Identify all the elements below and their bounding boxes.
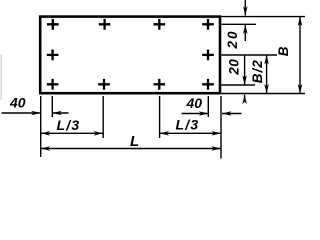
cross marker row1 col2 xyxy=(99,19,111,30)
dimension B/2: down arrow xyxy=(264,84,269,94)
dimension 40 left: tail right of col1 xyxy=(52,112,68,114)
dimension 40 left: leader line xyxy=(2,112,41,114)
svg-text:40: 40 xyxy=(9,95,26,111)
tick line row1 right xyxy=(222,23,257,25)
extension line col2 xyxy=(102,96,104,138)
top edge extension to the right xyxy=(222,16,306,18)
cross marker row3 col1 xyxy=(47,79,59,90)
scan edge artifact xyxy=(1,54,2,100)
dimension 20 top: upper line xyxy=(244,0,246,16)
dimension L: left arrow xyxy=(41,146,51,151)
dimension 40 right: leader line xyxy=(182,113,208,115)
cross marker row3 col2 xyxy=(98,79,110,90)
dimension 20 bottom: upper tail from tick2 xyxy=(244,55,246,85)
cross marker row1 col1 xyxy=(47,19,59,30)
dimension 20 bottom: down arrow at tick3 xyxy=(242,75,247,85)
dimension 20 top: down arrow xyxy=(243,6,248,16)
svg-text:L: L xyxy=(130,133,139,150)
dimension B: down arrow xyxy=(298,84,303,94)
svg-text:L/3: L/3 xyxy=(57,117,81,133)
dimension 40 left: left-pointing arrow xyxy=(52,111,62,116)
dimension B: up arrow xyxy=(298,17,303,27)
cross marker row2 col4 xyxy=(202,50,214,61)
dimension B/2: up arrow xyxy=(264,55,269,65)
dimension L/3 right: right arrow xyxy=(212,131,222,136)
dimension 40 right: right-pointing arrow xyxy=(199,111,209,116)
dimension 40 right: tail right of edge xyxy=(222,113,242,115)
cross marker row3 col4 xyxy=(202,79,214,90)
tick line row3 right xyxy=(222,84,256,86)
extension line col1 xyxy=(51,96,53,117)
dimension 20 top: up arrow xyxy=(243,25,248,35)
dimension L/3 right: left arrow xyxy=(160,131,170,136)
cross marker row1 col3 xyxy=(154,19,166,30)
dimension 40 right: left-pointing arrow xyxy=(222,111,232,116)
dimension L/3 left: left arrow xyxy=(41,131,51,136)
tick line row2 right xyxy=(222,54,278,56)
dimension L/3 left: line xyxy=(41,132,103,134)
dimension 20 bottom: up arrow at bottom edge xyxy=(242,95,247,105)
svg-text:20: 20 xyxy=(226,59,241,76)
svg-text:L/3: L/3 xyxy=(176,117,200,133)
cross marker row1 col4 xyxy=(202,19,214,30)
cross marker row2 col1 xyxy=(47,50,59,61)
dimension 20 top: lower tail xyxy=(244,25,246,42)
extension line col3 xyxy=(159,96,161,138)
svg-text:B: B xyxy=(276,46,291,56)
dimension L: right arrow xyxy=(212,146,222,151)
dimension B: line xyxy=(299,17,301,94)
dimension 20 bottom: lower tail below plate xyxy=(244,95,246,102)
dimension L/3 left: right arrow xyxy=(94,131,104,136)
svg-text:20: 20 xyxy=(225,29,240,49)
svg-text:40: 40 xyxy=(186,95,203,111)
dimension 40 left: right-pointing arrow xyxy=(31,111,41,116)
bottom edge extension to the right xyxy=(222,93,306,95)
dimension L/3 right: line xyxy=(160,132,221,134)
extension line col4 xyxy=(207,96,209,117)
dimension B/2: line xyxy=(266,55,268,94)
plate outline rectangle xyxy=(40,17,220,94)
dimension L: line xyxy=(41,148,221,150)
svg-text:B/2: B/2 xyxy=(250,59,265,83)
extension line right edge xyxy=(220,96,222,159)
cross marker row3 col3 xyxy=(154,79,166,90)
extension line left edge xyxy=(40,96,42,157)
